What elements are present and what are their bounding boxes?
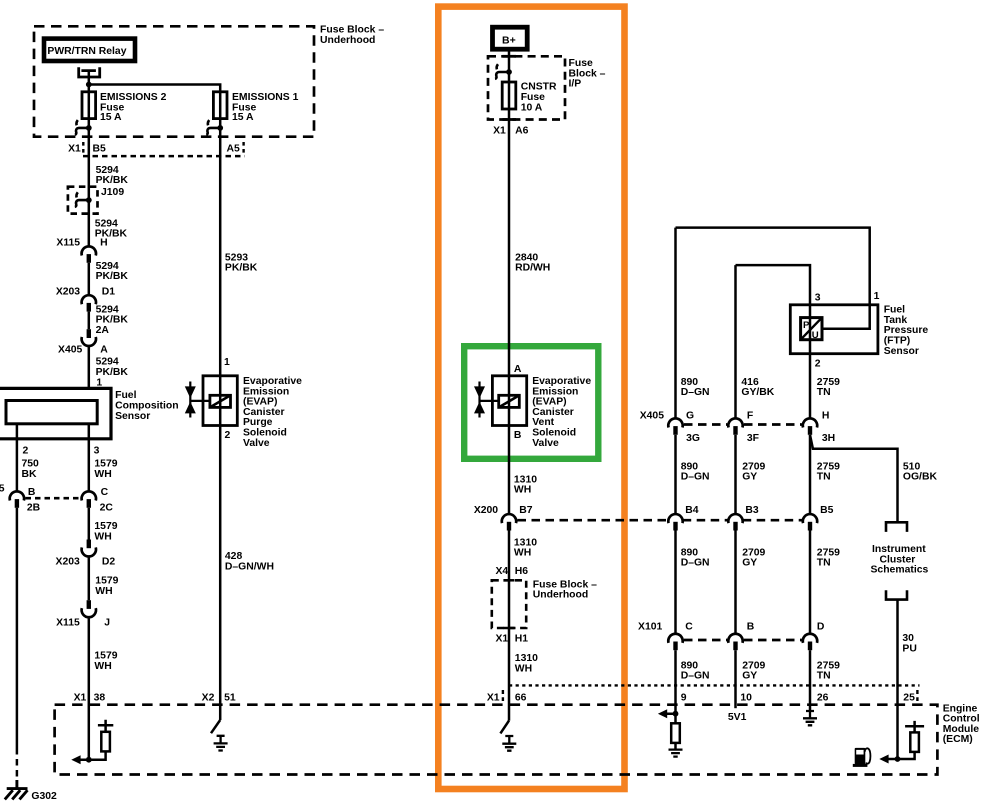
svg-text:P: P bbox=[803, 320, 810, 331]
svg-text:3H: 3H bbox=[822, 433, 835, 444]
svg-text:3: 3 bbox=[94, 446, 100, 457]
connector X1 strip dashed line bbox=[83, 155, 245, 158]
connector X115 J arc bbox=[82, 608, 96, 617]
switch at ECM pin 51 bbox=[211, 720, 220, 733]
switch at ECM pin 66 bbox=[500, 721, 509, 734]
svg-text:B7: B7 bbox=[519, 505, 533, 516]
svg-text:WH: WH bbox=[94, 532, 111, 543]
svg-text:Sensor: Sensor bbox=[115, 411, 150, 422]
wire X115 to X203 bbox=[88, 263, 91, 296]
purge valve coil diagonal bbox=[210, 395, 231, 407]
wire X200 to fuse block underhood bbox=[508, 531, 511, 721]
wire 890 D-GN down (R1) bbox=[674, 228, 677, 419]
svg-text:C: C bbox=[101, 487, 109, 498]
svg-text:B+: B+ bbox=[502, 34, 516, 46]
svg-text:G: G bbox=[686, 411, 694, 422]
fuel composition sensor inner box bbox=[6, 401, 97, 424]
wire R3 to ECM pin 26 bbox=[809, 650, 812, 710]
vent valve check arrows bbox=[478, 382, 480, 418]
fuse block underhood box bbox=[34, 26, 314, 136]
svg-text:2A: 2A bbox=[96, 325, 110, 336]
svg-text:GY: GY bbox=[742, 671, 757, 682]
svg-text:15 A: 15 A bbox=[232, 112, 254, 123]
svg-text:D–GN: D–GN bbox=[681, 558, 710, 569]
svg-text:X115: X115 bbox=[56, 618, 80, 629]
svg-text:1: 1 bbox=[224, 357, 230, 368]
wire R2 to ECM pin 10 bbox=[734, 650, 737, 708]
svg-text:PK/BK: PK/BK bbox=[96, 271, 129, 282]
vent valve arrow lead bbox=[480, 400, 499, 402]
svg-text:2: 2 bbox=[815, 358, 821, 369]
svg-text:I/P: I/P bbox=[569, 79, 582, 90]
resistor top lead pin 25 bbox=[905, 721, 924, 733]
svg-text:26: 26 bbox=[817, 692, 829, 703]
svg-text:A: A bbox=[514, 364, 522, 375]
svg-text:3: 3 bbox=[815, 292, 821, 303]
node pin 25 junction bbox=[895, 756, 901, 762]
wire B+ down to vent valve bbox=[508, 49, 511, 376]
svg-text:51: 51 bbox=[224, 692, 236, 703]
svg-text:C: C bbox=[685, 622, 693, 633]
connector X405 dashed links bbox=[684, 423, 802, 426]
svg-text:10: 10 bbox=[740, 692, 752, 703]
svg-text:Schematics: Schematics bbox=[871, 565, 929, 576]
wire through vent valve bbox=[508, 376, 511, 426]
wire arrow branch pin38 bbox=[80, 751, 106, 759]
node J109 bbox=[86, 197, 92, 203]
FTP sensor box bbox=[790, 305, 878, 354]
svg-text:GY: GY bbox=[742, 558, 757, 569]
svg-text:Composition: Composition bbox=[115, 400, 179, 411]
connector X405 A arc bbox=[82, 337, 96, 346]
node above CNSTR fuse bbox=[506, 69, 512, 75]
svg-text:RD/WH: RD/WH bbox=[515, 263, 550, 274]
svg-text:F: F bbox=[747, 411, 753, 422]
connector X203 D1 arc bbox=[82, 295, 96, 304]
connector X101 D arc bbox=[803, 634, 817, 643]
wire resistor to ground pin 9 bbox=[674, 743, 677, 749]
svg-text:U: U bbox=[812, 330, 819, 341]
svg-text:TN: TN bbox=[817, 472, 831, 483]
svg-text:Fuse: Fuse bbox=[569, 58, 593, 69]
FTP sensor P/U square bbox=[801, 318, 822, 340]
arrowhead pin 25 bbox=[879, 755, 888, 764]
svg-text:X203: X203 bbox=[56, 557, 80, 568]
svg-text:D–GN: D–GN bbox=[681, 671, 710, 682]
wire R1 to ECM pin 9 bbox=[674, 650, 677, 714]
svg-text:750: 750 bbox=[22, 459, 40, 470]
svg-text:B: B bbox=[747, 622, 755, 633]
svg-text:X1: X1 bbox=[493, 125, 506, 136]
wire fuse 1 down to purge valve bbox=[219, 128, 222, 376]
svg-text:J: J bbox=[104, 618, 110, 629]
svg-text:H: H bbox=[100, 238, 108, 249]
connector B3 tick bbox=[733, 522, 737, 531]
svg-text:WH: WH bbox=[515, 663, 532, 674]
svg-text:1579: 1579 bbox=[94, 459, 117, 470]
svg-text:2: 2 bbox=[23, 446, 29, 457]
svg-text:3G: 3G bbox=[686, 433, 700, 444]
connector X405 F arc bbox=[728, 418, 742, 427]
svg-text:GY: GY bbox=[742, 472, 757, 483]
connector X200 B7 pin tick bbox=[507, 522, 511, 531]
svg-text:X4: X4 bbox=[495, 566, 508, 577]
connector X405 H arc bbox=[803, 418, 817, 427]
resistor in ECM pin38 bbox=[101, 732, 110, 752]
svg-text:B5: B5 bbox=[820, 505, 834, 516]
svg-text:H1: H1 bbox=[515, 633, 529, 644]
connector X115 H pin tick bbox=[87, 254, 91, 263]
svg-text:25: 25 bbox=[903, 692, 915, 703]
fuse CNSTR bbox=[502, 82, 516, 109]
B+ box bbox=[493, 27, 528, 49]
orange highlight box bbox=[438, 7, 624, 789]
connector X101 B arc bbox=[728, 634, 742, 643]
resistor top lead pin38 bbox=[98, 720, 113, 732]
relay contact symbol bbox=[79, 67, 100, 77]
svg-text:X115: X115 bbox=[56, 238, 80, 249]
svg-text:H6: H6 bbox=[515, 566, 529, 577]
connector C arc bbox=[82, 491, 96, 500]
fuse EMISSIONS 1 bbox=[213, 92, 227, 119]
wire relay to fuses bbox=[89, 71, 220, 92]
svg-text:D–GN: D–GN bbox=[681, 472, 710, 483]
connector B4 arc bbox=[668, 514, 682, 523]
vent valve coil bbox=[499, 395, 520, 407]
wire fuse 2 to X115 bbox=[88, 128, 91, 247]
connector X1 tick left bbox=[82, 142, 84, 153]
connector B3 arc bbox=[728, 514, 742, 523]
terminal hook below fuse 2 bbox=[75, 120, 89, 135]
purge valve box bbox=[203, 376, 237, 426]
connector X405 H tick bbox=[808, 426, 812, 435]
terminal hook above CNSTR fuse bbox=[495, 64, 509, 79]
green highlight box bbox=[464, 346, 598, 459]
svg-text:5V1: 5V1 bbox=[728, 712, 747, 723]
wire 750 BK down bbox=[16, 508, 19, 748]
FTP sensor square diagonal bbox=[801, 318, 822, 340]
purge valve coil bbox=[210, 395, 231, 407]
svg-text:X1: X1 bbox=[495, 633, 508, 644]
wire through fuse 1 bbox=[219, 92, 222, 128]
node ECM pin38 junction bbox=[86, 757, 92, 763]
svg-text:Fuel: Fuel bbox=[115, 390, 136, 401]
svg-text:Sensor: Sensor bbox=[884, 346, 919, 357]
svg-text:Valve: Valve bbox=[532, 438, 559, 449]
wire through fuse 2 bbox=[88, 92, 91, 128]
svg-text:38: 38 bbox=[94, 692, 106, 703]
svg-text:(ECM): (ECM) bbox=[943, 734, 973, 745]
connector X405 F tick bbox=[733, 426, 737, 435]
svg-text:Underhood: Underhood bbox=[533, 590, 588, 601]
svg-text:Fuse: Fuse bbox=[521, 92, 545, 103]
svg-text:PK/BK: PK/BK bbox=[96, 367, 129, 378]
wire branch 510 OG/BK diagonal bbox=[810, 435, 898, 522]
wire through purge valve bbox=[219, 376, 222, 426]
svg-text:GY/BK: GY/BK bbox=[741, 387, 774, 398]
connector X101 B tick bbox=[733, 642, 737, 651]
wire sensor pin 2 bbox=[16, 424, 19, 492]
wire through FTP square bbox=[809, 318, 812, 340]
connector X405 A pin tick bbox=[87, 329, 91, 338]
tick at I/P box top bbox=[503, 55, 517, 58]
svg-text:D1: D1 bbox=[102, 286, 116, 297]
svg-text:Block –: Block – bbox=[569, 68, 606, 79]
svg-text:TN: TN bbox=[817, 558, 831, 569]
svg-text:PK/BK: PK/BK bbox=[96, 175, 129, 186]
fuse block I/P dashed box bbox=[488, 56, 565, 119]
fuel pump icon bbox=[853, 748, 871, 767]
svg-text:A6: A6 bbox=[515, 125, 529, 136]
instrument cluster top bracket bbox=[886, 522, 907, 532]
svg-text:9: 9 bbox=[681, 692, 687, 703]
ground at pin 66 bbox=[502, 736, 516, 751]
connector B arc bbox=[10, 491, 24, 500]
connector X203 D2 pin tick bbox=[87, 540, 91, 549]
svg-text:WH: WH bbox=[514, 485, 531, 496]
svg-text:J109: J109 bbox=[101, 187, 124, 198]
svg-text:A: A bbox=[100, 345, 108, 356]
wire X203 to X115 J bbox=[88, 556, 91, 600]
svg-text:X405: X405 bbox=[640, 411, 664, 422]
node below fuse 1 bbox=[217, 125, 223, 131]
connector C pin tick bbox=[87, 499, 91, 508]
purge valve arrow lead bbox=[190, 400, 210, 402]
arrowhead pin38 bbox=[71, 755, 80, 764]
wire 30 PU down to pin 25 bbox=[896, 600, 899, 759]
connector X101 C tick bbox=[673, 642, 677, 651]
connector X200 dashed link to B4 B3 B5 bbox=[518, 519, 804, 522]
svg-text:TN: TN bbox=[817, 671, 831, 682]
svg-text:5: 5 bbox=[0, 483, 5, 494]
svg-text:1: 1 bbox=[874, 291, 880, 302]
svg-text:Valve: Valve bbox=[243, 438, 270, 449]
wire arrow branch pin 9 bbox=[666, 714, 675, 724]
connector B5 tick bbox=[808, 522, 812, 531]
connector B-C dashed link bbox=[26, 497, 81, 500]
svg-text:2B: 2B bbox=[27, 503, 41, 514]
svg-text:B5: B5 bbox=[93, 144, 107, 155]
svg-text:X2: X2 bbox=[202, 692, 215, 703]
wire 750 BK dashed to ground bbox=[16, 748, 19, 780]
connector X200 B7 arc bbox=[502, 514, 516, 523]
instrument cluster bottom bracket bbox=[886, 590, 907, 599]
wire R1 B4 to X101 C bbox=[674, 531, 677, 635]
wire second feed to FTP pin 3 bbox=[736, 265, 811, 318]
connector X115 J pin tick bbox=[87, 600, 91, 609]
terminal hook below fuse 1 bbox=[206, 120, 220, 135]
wire purge valve to ECM X2 51 bbox=[219, 426, 222, 721]
svg-text:B: B bbox=[514, 430, 522, 441]
svg-text:10 A: 10 A bbox=[521, 102, 543, 113]
resistor pin 9 bbox=[671, 723, 680, 743]
svg-text:D2: D2 bbox=[102, 557, 116, 568]
ECM dashed box bbox=[55, 705, 938, 775]
arrowhead pin 9 bbox=[658, 709, 667, 718]
svg-text:2C: 2C bbox=[100, 503, 114, 514]
wire R1 X405 to B4 bbox=[674, 435, 677, 514]
svg-text:CNSTR: CNSTR bbox=[521, 82, 557, 93]
wire R2 X405 to B3 bbox=[734, 435, 737, 514]
svg-text:X200: X200 bbox=[474, 505, 498, 516]
svg-text:X203: X203 bbox=[56, 286, 80, 297]
svg-text:D: D bbox=[817, 622, 825, 633]
tick at I/P box bottom bbox=[503, 118, 517, 121]
pin row fine dotted line bbox=[509, 684, 920, 686]
svg-text:WH: WH bbox=[514, 548, 531, 559]
svg-text:B4: B4 bbox=[685, 505, 699, 516]
svg-text:X1: X1 bbox=[74, 692, 87, 703]
svg-text:2: 2 bbox=[225, 430, 231, 441]
fuel composition sensor outer box bbox=[0, 388, 111, 438]
fuse EMISSIONS 2 bbox=[82, 92, 96, 119]
node relay output bbox=[86, 82, 92, 88]
svg-text:1: 1 bbox=[96, 377, 102, 388]
wire R2 B3 to X101 B bbox=[734, 531, 737, 635]
svg-text:B: B bbox=[28, 487, 36, 498]
connector X115 H arc bbox=[82, 246, 96, 255]
wire arrow branch pin 25 bbox=[888, 752, 915, 759]
svg-text:PK/BK: PK/BK bbox=[225, 263, 258, 274]
vent valve coil diagonal bbox=[499, 395, 520, 407]
ground pin 9 bbox=[669, 750, 683, 757]
connector X101 C arc bbox=[668, 634, 682, 643]
connector X1 66 dotted tick bbox=[502, 690, 504, 701]
connector X101 dashed links bbox=[684, 639, 802, 642]
svg-text:X1: X1 bbox=[487, 692, 500, 703]
connector B4 tick bbox=[673, 522, 677, 531]
svg-text:B3: B3 bbox=[745, 505, 759, 516]
svg-text:66: 66 bbox=[515, 692, 527, 703]
connector X1 tick right bbox=[242, 142, 244, 153]
svg-text:G302: G302 bbox=[31, 791, 57, 802]
connector pin 25 dotted tick bbox=[916, 690, 918, 701]
svg-text:D–GN/WH: D–GN/WH bbox=[225, 561, 274, 572]
node below fuse 2 bbox=[86, 125, 92, 131]
resistor pin 25 bbox=[910, 732, 919, 752]
connector B5 arc bbox=[803, 514, 817, 523]
wire 1579 WH to X203 D2 bbox=[88, 508, 91, 540]
tick at small box top bbox=[504, 579, 515, 582]
svg-text:15 A: 15 A bbox=[100, 112, 122, 123]
wire 416 GY/BK down (R2) bbox=[734, 265, 737, 419]
svg-text:X101: X101 bbox=[638, 622, 662, 633]
wire vent valve to X200 B7 bbox=[508, 426, 511, 515]
svg-text:PU: PU bbox=[902, 644, 916, 655]
wire FTP pin 2 down (R3) bbox=[809, 340, 812, 419]
svg-text:Underhood: Underhood bbox=[320, 35, 375, 46]
wire X405 to sensor bbox=[88, 346, 91, 389]
svg-text:BK: BK bbox=[22, 469, 38, 480]
wire R3 B5 to X101 D bbox=[809, 531, 812, 635]
svg-text:WH: WH bbox=[94, 661, 111, 672]
svg-text:D–GN: D–GN bbox=[681, 387, 710, 398]
ground at pin 51 bbox=[214, 736, 228, 751]
wire X203 to X405 bbox=[88, 312, 91, 330]
splice J109 hook bbox=[75, 192, 89, 207]
svg-text:TN: TN bbox=[817, 387, 831, 398]
ground G302 chassis symbol bbox=[5, 780, 28, 799]
vent valve box bbox=[492, 376, 526, 426]
svg-text:OG/BK: OG/BK bbox=[903, 472, 938, 483]
tick at small box bottom bbox=[504, 627, 515, 630]
svg-text:H: H bbox=[822, 411, 830, 422]
wire X115 J to ECM pin 38 bbox=[88, 617, 91, 760]
svg-text:A5: A5 bbox=[227, 144, 241, 155]
connector X203 D2 arc bbox=[82, 547, 96, 556]
connector X405 G tick bbox=[673, 426, 677, 435]
svg-text:WH: WH bbox=[95, 586, 112, 597]
wire sensor pin 3 bbox=[88, 424, 91, 492]
relay PWR/TRN box bbox=[44, 39, 135, 61]
wire R3 X405 to B5 bbox=[809, 435, 812, 514]
svg-text:X405: X405 bbox=[58, 345, 82, 356]
small fuse block underhood dashed box bbox=[492, 580, 526, 628]
purge valve check arrows bbox=[189, 382, 191, 418]
connector X405 G arc bbox=[668, 418, 682, 427]
ground pin 26 bbox=[803, 711, 817, 725]
connector X101 D tick bbox=[808, 642, 812, 651]
svg-text:WH: WH bbox=[94, 469, 111, 480]
svg-text:X1: X1 bbox=[68, 144, 81, 155]
splice J109 box bbox=[68, 187, 98, 214]
node pin 9 junction bbox=[673, 711, 679, 717]
wire top feed to FTP pin 1 bbox=[676, 228, 870, 329]
connector X203 D1 pin tick bbox=[87, 303, 91, 312]
connector B pin tick bbox=[15, 499, 19, 508]
svg-text:3F: 3F bbox=[747, 433, 759, 444]
svg-text:PWR/TRN Relay: PWR/TRN Relay bbox=[47, 46, 126, 57]
